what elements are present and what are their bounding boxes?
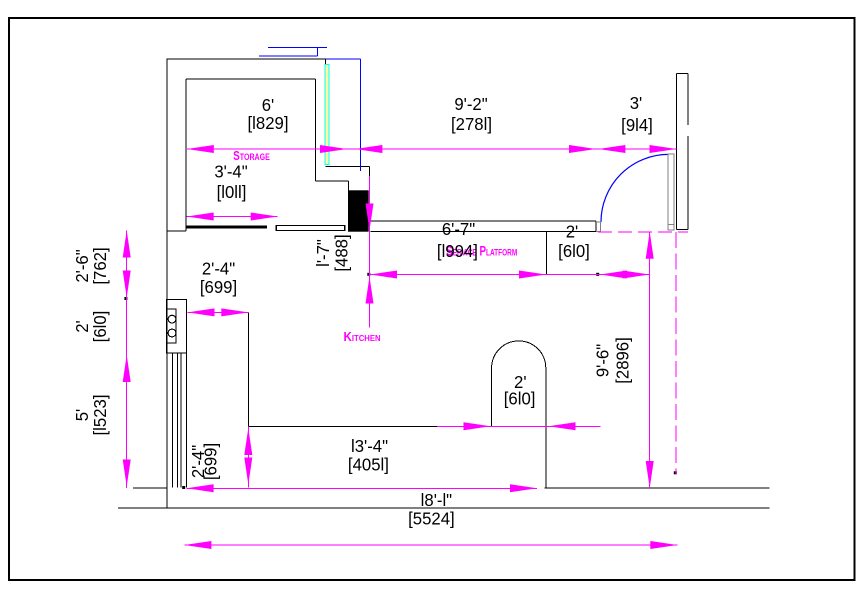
svg-text:[488]: [488] <box>331 234 352 271</box>
svg-text:[762]: [762] <box>89 247 110 284</box>
svg-text:[l0ll]: [l0ll] <box>217 181 247 202</box>
svg-text:[l829]: [l829] <box>248 112 289 133</box>
svg-text:[699]: [699] <box>200 276 237 297</box>
svg-text:6'-7": 6'-7" <box>442 218 475 239</box>
svg-text:[6l0]: [6l0] <box>558 240 590 261</box>
svg-text:[2896]: [2896] <box>612 337 633 384</box>
svg-text:9'-6": 9'-6" <box>592 344 613 377</box>
svg-text:[l523]: [l523] <box>89 395 110 436</box>
svg-text:[l994]: [l994] <box>437 240 478 261</box>
svg-text:9'-2": 9'-2" <box>454 93 487 114</box>
svg-text:[278l]: [278l] <box>451 113 492 134</box>
svg-text:3'-4": 3'-4" <box>214 161 247 182</box>
svg-text:2': 2' <box>566 221 579 242</box>
svg-text:[9l4]: [9l4] <box>621 114 653 135</box>
svg-text:[5524]: [5524] <box>408 508 455 529</box>
svg-text:Kitchen: Kitchen <box>343 330 380 344</box>
svg-text:3': 3' <box>630 92 643 113</box>
svg-text:[405l]: [405l] <box>348 454 389 475</box>
svg-text:[6l0]: [6l0] <box>504 388 536 409</box>
svg-text:[6l0]: [6l0] <box>89 311 110 343</box>
svg-text:[699]: [699] <box>200 443 221 480</box>
